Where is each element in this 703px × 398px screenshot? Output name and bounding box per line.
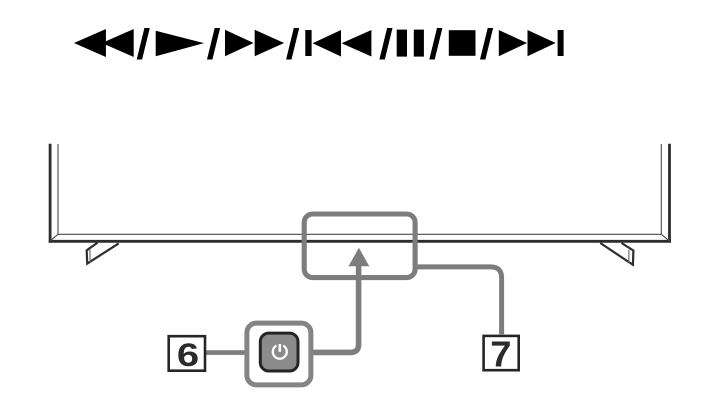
fast-forward symbol xyxy=(225,30,254,56)
previous symbol xyxy=(305,30,311,56)
next symbol xyxy=(499,30,527,56)
label 7 box xyxy=(484,336,519,370)
TV right stand leg xyxy=(600,243,633,265)
TV inner right edge xyxy=(660,144,662,234)
stop symbol xyxy=(449,30,476,56)
power symbol xyxy=(273,344,287,359)
power button outer bezel xyxy=(247,323,311,385)
svg-text:7: 7 xyxy=(490,334,511,375)
slash 5 xyxy=(429,28,442,60)
TV inner bottom edge xyxy=(58,233,661,235)
play symbol xyxy=(156,31,204,57)
slash 4 xyxy=(379,28,392,60)
TV outer left edge xyxy=(49,144,52,243)
slash 2 xyxy=(207,28,220,60)
label 6 box xyxy=(169,336,205,371)
arrow head pointing at TV xyxy=(349,248,370,266)
TV right corner chamfer xyxy=(661,234,669,241)
media control symbols row xyxy=(74,28,564,60)
leader line from power button to arrow xyxy=(313,266,359,353)
TV inner left edge xyxy=(57,144,59,234)
power button key xyxy=(260,333,298,371)
TV outer bottom edge xyxy=(49,240,671,243)
slash 1 xyxy=(137,28,150,60)
slash 3 xyxy=(286,28,299,60)
rewind symbol xyxy=(74,29,106,57)
svg-text:6: 6 xyxy=(177,337,199,373)
slash 6 xyxy=(480,28,493,60)
leader line from callout box to label 7 xyxy=(418,267,502,334)
TV left stand leg xyxy=(87,243,119,264)
leader line from label 6 to power button xyxy=(206,350,246,355)
TV bottom illustration xyxy=(49,144,671,243)
TV left corner chamfer xyxy=(50,234,58,241)
callout box on TV (item 7 area) xyxy=(304,214,415,278)
pause symbol xyxy=(397,30,407,57)
TV outer right edge xyxy=(668,144,671,243)
